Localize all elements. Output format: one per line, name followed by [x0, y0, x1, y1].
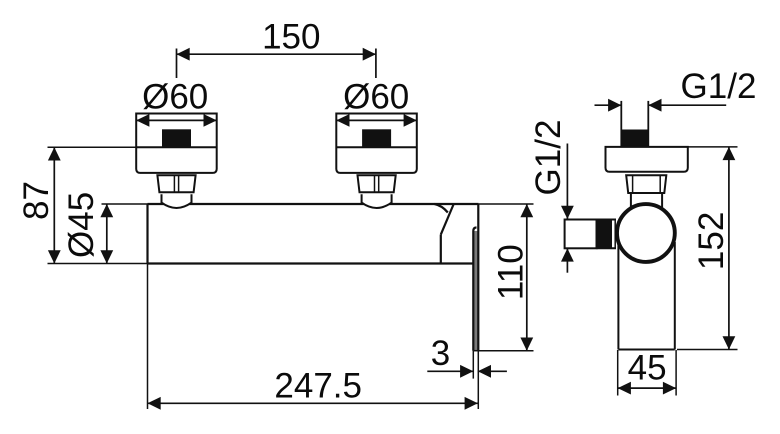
svg-text:G1/2: G1/2 — [529, 120, 568, 196]
svg-text:45: 45 — [628, 349, 667, 388]
svg-text:87: 87 — [17, 181, 56, 220]
svg-text:Ø60: Ø60 — [343, 78, 409, 117]
svg-text:247.5: 247.5 — [274, 367, 362, 406]
svg-text:110: 110 — [492, 244, 531, 300]
svg-text:Ø60: Ø60 — [142, 78, 208, 117]
svg-text:3: 3 — [431, 334, 450, 373]
svg-text:152: 152 — [692, 212, 731, 270]
svg-text:G1/2: G1/2 — [681, 67, 757, 106]
svg-text:Ø45: Ø45 — [62, 192, 101, 258]
svg-text:150: 150 — [262, 18, 320, 57]
